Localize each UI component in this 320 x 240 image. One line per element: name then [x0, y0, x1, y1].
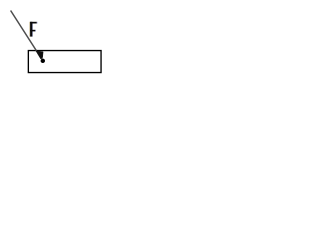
label F (top bar): [30, 22, 37, 24]
label F (stem right fringe): [31, 24, 34, 37]
label F (top bar right fringe): [36, 22, 39, 24]
label F (left subpixel fringe): [28, 22, 31, 37]
label F (middle bar right fringe): [34, 30, 37, 32]
label F (middle bar): [30, 30, 35, 32]
force arrow F (line): [11, 11, 37, 51]
force arrow F (head): [36, 51, 43, 59]
label F (stem): [30, 22, 32, 37]
application point dot: [41, 59, 45, 63]
box (rectangle): [28, 51, 101, 73]
